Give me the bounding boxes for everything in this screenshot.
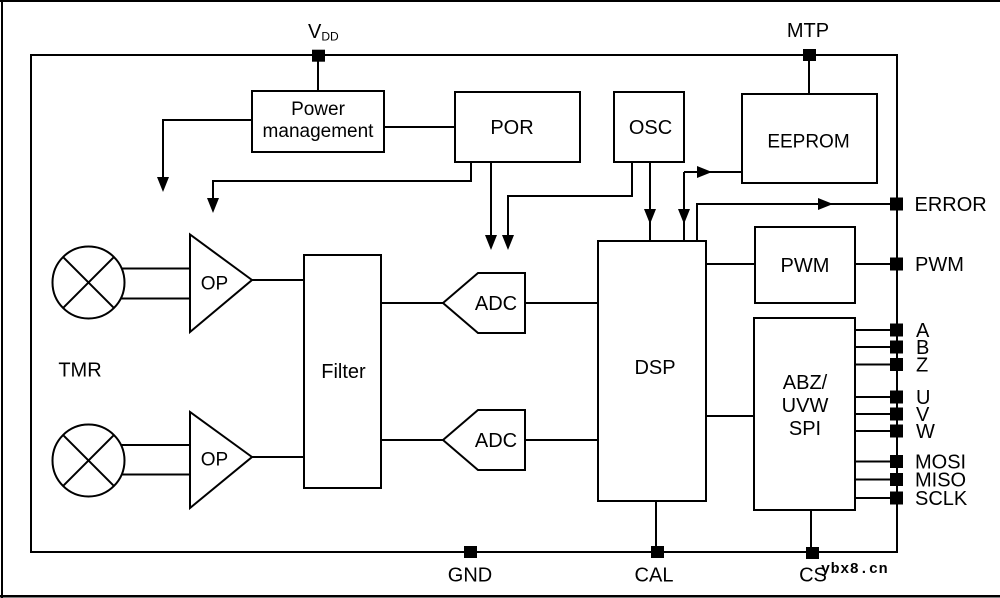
svg-text:Filter: Filter: [321, 361, 366, 383]
wire U: [855, 396, 891, 398]
block ADC2: [443, 410, 525, 470]
svg-text:MTP: MTP: [787, 20, 829, 42]
wire DSP to PWM: [706, 263, 755, 265]
wire ADC1 to DSP: [525, 302, 598, 304]
pad SCLK: [890, 492, 903, 505]
wire W: [855, 430, 891, 432]
op-amp OP2: [190, 412, 252, 508]
wire DSP to ABZ block: [706, 415, 754, 417]
wire Power management to POR: [384, 126, 455, 128]
svg-text:ybx8.cn: ybx8.cn: [821, 561, 888, 578]
svg-text:UVW: UVW: [782, 395, 829, 417]
arrow right into EEPROM: [697, 166, 712, 178]
pad CS: [806, 547, 819, 559]
wire B: [855, 346, 891, 348]
pad PWM: [890, 258, 903, 271]
svg-text:W: W: [916, 421, 935, 443]
wire ADC2 to DSP: [525, 439, 598, 441]
frame top border: [0, 0, 1000, 2]
svg-text:OP: OP: [201, 274, 228, 295]
wire OSC to DSP: [649, 162, 651, 241]
sensor TMR2 cross: [63, 435, 114, 486]
arrow down POR branch 2: [485, 235, 497, 250]
wire V: [855, 413, 891, 415]
block PWM: [755, 227, 855, 303]
svg-text:CAL: CAL: [635, 565, 674, 587]
svg-text:management: management: [263, 121, 375, 142]
arrow down OSC to DSP: [644, 209, 656, 224]
svg-text:SPI: SPI: [789, 418, 821, 440]
block Filter: [304, 255, 381, 488]
wire TMR2 lower: [120, 474, 190, 476]
sensor TMR1 cross: [63, 257, 114, 308]
wire Filter to ADC1: [381, 302, 443, 304]
wire TMR1 upper: [120, 268, 190, 270]
svg-text:Power: Power: [291, 99, 346, 120]
wire POR branch 1: [213, 162, 471, 201]
wire Z: [855, 364, 891, 366]
block ABZ/UVW/SPI: [754, 318, 855, 510]
pad Z: [890, 358, 903, 371]
wire DSP to CAL pad: [655, 501, 657, 552]
block ADC1: [443, 273, 525, 333]
pad ERROR: [890, 198, 903, 211]
arrow down OSC branch 1: [502, 235, 514, 250]
svg-text:EEPROM: EEPROM: [767, 132, 849, 153]
block Power management: [252, 91, 384, 152]
wire MISO: [855, 479, 891, 481]
svg-text:OP: OP: [201, 450, 228, 471]
block OSC: [614, 92, 684, 162]
wire OP1 to Filter: [252, 279, 304, 281]
svg-text:PWM: PWM: [915, 254, 964, 276]
frame left border: [1, 0, 3, 598]
pad MISO: [890, 473, 903, 486]
wire ABZ to CS pad: [810, 510, 812, 552]
pad MTP: [803, 49, 816, 61]
wire SCLK: [855, 497, 891, 499]
pad A: [890, 324, 903, 337]
wire VDD pad to Power management: [317, 55, 319, 91]
chip boundary rectangle: [31, 55, 897, 552]
svg-text:Z: Z: [916, 355, 928, 377]
wire MTP pad to EEPROM: [808, 55, 810, 94]
pad W: [890, 425, 903, 438]
block POR: [455, 92, 580, 162]
pad B: [890, 341, 903, 354]
wire DSP to ERROR pad: [697, 204, 891, 241]
wire DSP to EEPROM vertical: [683, 172, 685, 241]
arrow down POR branch 1: [207, 198, 219, 213]
svg-text:OSC: OSC: [629, 117, 672, 139]
svg-text:SCLK: SCLK: [915, 488, 968, 510]
pad MOSI: [890, 455, 903, 468]
wire MOSI: [855, 461, 891, 463]
op-amp OP1: [190, 235, 252, 333]
wire Power management left branch: [163, 120, 252, 180]
svg-text:DSP: DSP: [634, 357, 675, 379]
wire TMR1 lower: [120, 298, 190, 300]
wire DSP to EEPROM horizontal: [684, 171, 742, 173]
wire Filter to ADC2: [381, 439, 443, 441]
svg-text:ADC: ADC: [475, 430, 517, 452]
sensor TMR1 circle: [53, 247, 125, 319]
wire OP2 to Filter: [252, 456, 304, 458]
wire POR branch 2: [490, 162, 492, 238]
svg-text:ABZ/: ABZ/: [783, 372, 828, 394]
arrow down left branch: [157, 177, 169, 192]
pad V: [890, 408, 903, 421]
wire TMR2 upper: [120, 444, 190, 446]
svg-text:TMR: TMR: [58, 360, 101, 382]
pad CAL: [651, 546, 664, 558]
sensor TMR2 circle: [53, 425, 125, 497]
svg-text:ADC: ADC: [475, 293, 517, 315]
arrow right ERROR: [818, 198, 833, 210]
svg-text:ERROR: ERROR: [915, 194, 987, 216]
block DSP: [598, 241, 706, 501]
wire OSC branch 1: [508, 162, 632, 238]
frame bottom border: [0, 595, 1000, 598]
pad VDD: [312, 50, 325, 62]
wire PWM to PWM pad: [855, 263, 891, 265]
svg-text:PWM: PWM: [781, 255, 830, 277]
svg-text:POR: POR: [490, 117, 533, 139]
block EEPROM: [742, 94, 877, 183]
svg-text:GND: GND: [448, 565, 492, 587]
pad GND: [464, 546, 477, 558]
arrow down into DSP: [678, 209, 690, 224]
pad U: [890, 391, 903, 404]
wire A: [855, 329, 891, 331]
